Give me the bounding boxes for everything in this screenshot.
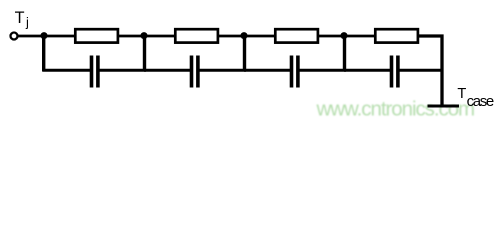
svg-text:T: T bbox=[457, 86, 466, 102]
resistor R3 bbox=[275, 29, 318, 42]
node D junction dot bbox=[341, 32, 348, 39]
node Tj label bbox=[15, 9, 29, 29]
terminal Tj bbox=[11, 33, 18, 40]
node A junction dot bbox=[41, 32, 48, 39]
node Tcase label bbox=[457, 86, 493, 110]
wire R2 to node C bbox=[218, 35, 275, 38]
capacitor C2 bbox=[192, 56, 198, 88]
wire node C down bbox=[243, 36, 246, 71]
svg-text:case: case bbox=[467, 93, 494, 110]
wire node D to C4 bbox=[344, 69, 390, 72]
node B junction dot bbox=[141, 32, 148, 39]
wire C2 to node C bbox=[199, 69, 246, 72]
wire node B to C2 bbox=[144, 69, 190, 72]
resistor R2 bbox=[175, 29, 218, 42]
wire R4 to right rail bbox=[418, 36, 442, 106]
node C junction dot bbox=[241, 32, 248, 39]
wire node A down bbox=[42, 36, 45, 71]
wire R3 to node D bbox=[318, 35, 375, 38]
resistor R4 bbox=[375, 29, 418, 42]
wire R1 to node B bbox=[118, 35, 175, 38]
svg-text:T: T bbox=[15, 9, 25, 27]
wire node B down bbox=[143, 36, 146, 71]
capacitor C3 bbox=[292, 56, 298, 88]
wire bottom node A to C1 bbox=[42, 69, 90, 72]
wire C4 to right rail bbox=[399, 69, 443, 72]
wire Tj to node A bbox=[18, 35, 75, 38]
wire C1 to node B bbox=[99, 69, 146, 72]
ground bar Tcase bbox=[428, 105, 460, 108]
wire node C to C3 bbox=[244, 69, 290, 72]
wire C3 to node D bbox=[299, 69, 346, 72]
svg-text:www.cntronics.com: www.cntronics.com bbox=[316, 97, 475, 120]
capacitor C1 bbox=[92, 56, 98, 88]
wire node D down bbox=[343, 36, 346, 71]
svg-text:j: j bbox=[25, 14, 29, 29]
capacitor C4 bbox=[392, 56, 398, 88]
resistor R1 bbox=[75, 29, 118, 42]
